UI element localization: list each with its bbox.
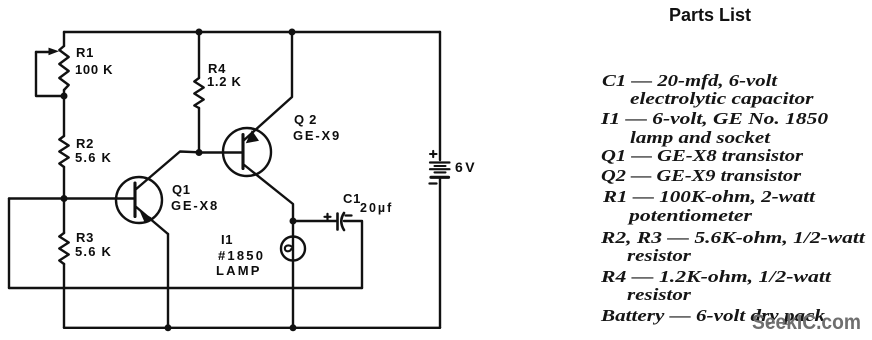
svg-text:20µf: 20µf [360,201,393,215]
wire R3 to bottom rail [63,264,65,328]
node junction Q1 emitter bottom rail [165,324,172,331]
potentiometer wiper arrow R1 [36,48,59,56]
parts list line Q1 [601,146,803,166]
wire bottom rail [64,327,440,329]
svg-text:Q1: Q1 [172,182,191,197]
node junction Q2 collector/lamp/C1 [290,218,297,225]
parts list title [669,5,751,26]
resistor R1 [59,46,68,90]
parts list line C1 [602,71,777,91]
svg-text:Q 2: Q 2 [294,112,317,127]
resistor R2 [59,136,68,167]
svg-text:I1: I1 [221,232,233,247]
wire base row left [9,197,64,199]
wire feedback bottom horizontal [9,287,362,289]
node junction base row [61,195,68,202]
wire Q1 emitter down [167,234,169,328]
svg-text:R1: R1 [76,45,94,60]
transistor Q2 [223,32,293,221]
wire battery top lead [439,32,441,160]
wire feedback left vertical [8,199,10,289]
resistor R4 [194,78,203,108]
parts list line R4 [601,267,831,287]
parts list line battery [601,306,825,326]
svg-text:GE-X8: GE-X8 [171,198,219,213]
lamp I1 [281,237,305,261]
svg-text:R2: R2 [76,136,94,151]
svg-text:#1850: #1850 [218,248,265,263]
svg-text:5.6 K: 5.6 K [75,150,112,165]
wire wiper return [36,52,64,96]
wire R1 to node [63,90,65,136]
svg-text:6V: 6V [455,159,477,175]
svg-text:1.2 K: 1.2 K [207,74,242,89]
parts list line I1 [601,109,828,129]
wire R4 bottom [198,108,200,153]
wire lamp top lead [292,221,294,237]
svg-text:100 K: 100 K [75,62,113,77]
svg-text:C1: C1 [343,191,361,206]
node junction Q2 emitter top rail [289,29,296,36]
watermark [752,311,861,335]
capacitor C1 [325,213,352,230]
wire lamp bottom lead [292,261,294,328]
svg-text:GE-X9: GE-X9 [293,128,341,143]
node junction lamp bottom rail [290,324,297,331]
svg-text:5.6 K: 5.6 K [75,244,112,259]
wire top rail [64,31,440,33]
svg-text:LAMP: LAMP [216,263,262,278]
parts list line R1 [603,187,815,207]
battery B1 [430,151,450,184]
resistor R3 [59,233,68,264]
node junction wiper/R1-R2 [61,93,68,100]
wire Q2 base lead [199,151,243,153]
wire Q1 base lead [64,197,135,199]
node junction R4/Q1 collector/Q2 base [196,149,203,156]
wire R2 to base node [63,167,65,233]
wire R4 top [198,32,200,78]
wire C1 right lead [344,221,362,288]
wire battery bottom lead [439,179,441,328]
svg-text:R3: R3 [76,230,94,245]
wire left column top [63,32,65,46]
parts list line R2 R3 [601,228,865,248]
transistor Q1 [116,152,199,235]
wire C1 left lead [293,220,336,222]
node junction R4 top rail [196,29,203,36]
parts list line Q2 [601,166,801,186]
